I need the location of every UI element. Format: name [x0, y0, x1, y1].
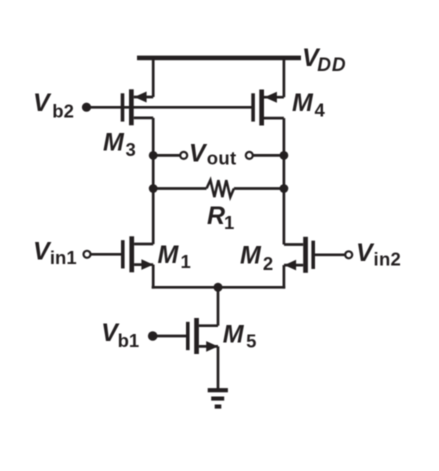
label R1: [207, 202, 234, 233]
wire tail: [152, 286, 286, 289]
wire M1 source down: [152, 265, 155, 289]
svg-text:b1: b1: [118, 330, 140, 351]
wire M2 gate to Vin2: [315, 253, 345, 256]
svg-text:R: R: [207, 202, 225, 230]
transistor M4: [251, 90, 284, 126]
label M1: [158, 241, 191, 272]
wire VDD rail to M3 source: [152, 58, 155, 97]
svg-text:V: V: [356, 239, 375, 267]
svg-text:V: V: [189, 140, 208, 168]
wire Vb1 to M5 gate: [153, 335, 186, 338]
label Vin2: [356, 239, 401, 270]
node left resistor: [149, 184, 158, 193]
node right resistor: [280, 184, 289, 193]
svg-text:5: 5: [246, 330, 256, 351]
svg-text:b2: b2: [52, 100, 74, 121]
terminal Vout right circle: [246, 152, 253, 159]
wire M2 source down: [283, 265, 286, 289]
wire tail node to M5 drain: [217, 287, 220, 325]
svg-text:out: out: [207, 148, 237, 169]
svg-text:M: M: [223, 320, 245, 348]
transistor M3: [121, 89, 154, 125]
svg-text:in1: in1: [50, 247, 77, 268]
label M4: [292, 89, 326, 121]
label M2: [240, 241, 273, 274]
svg-text:DD: DD: [317, 55, 346, 76]
label Vout: [189, 140, 237, 169]
svg-text:M: M: [103, 128, 125, 156]
svg-text:1: 1: [224, 212, 234, 233]
wire Vb2 to gates of M3 and M4: [87, 106, 252, 109]
wire Vout right terminal to right node: [253, 154, 284, 157]
svg-text:M: M: [292, 89, 314, 117]
wire resistor to right node: [234, 187, 284, 190]
terminal Vb1 dot: [148, 331, 158, 341]
terminal Vb2 dot: [82, 103, 91, 112]
label M5: [223, 320, 257, 351]
label Vb2: [33, 89, 74, 121]
svg-text:M: M: [240, 241, 262, 269]
terminal Vin1 circle: [84, 251, 91, 258]
node tail: [214, 283, 223, 292]
wire Vin1 to M1 gate: [90, 253, 121, 256]
transistor M1: [121, 236, 153, 272]
label M3: [103, 128, 136, 160]
svg-text:2: 2: [263, 253, 273, 274]
wire M5 source to ground: [217, 346, 220, 389]
node right output: [280, 151, 289, 160]
svg-text:1: 1: [181, 251, 191, 272]
wire left node to Vout left terminal: [153, 154, 180, 157]
label Vb1: [101, 319, 139, 351]
resistor R1: [207, 180, 234, 197]
svg-text:in2: in2: [374, 248, 402, 269]
label VDD: [302, 44, 347, 76]
terminal Vout left circle: [180, 152, 187, 159]
transistor M2: [284, 237, 315, 273]
wire VDD rail to M4 source: [283, 58, 286, 97]
wire left node to resistor: [153, 187, 206, 190]
node left output: [149, 151, 158, 160]
power rail VDD: [137, 56, 301, 61]
wire M3 drain to M1 drain left branch: [152, 118, 155, 244]
label Vin1: [33, 237, 77, 268]
svg-text:M: M: [158, 241, 180, 269]
terminal Vin2 circle: [345, 251, 352, 258]
svg-text:3: 3: [126, 139, 136, 160]
ground: [208, 388, 228, 409]
wire M4 drain to M2 drain right branch: [283, 118, 286, 244]
svg-text:4: 4: [315, 100, 326, 121]
svg-text:V: V: [33, 89, 52, 117]
transistor M5: [186, 318, 218, 354]
